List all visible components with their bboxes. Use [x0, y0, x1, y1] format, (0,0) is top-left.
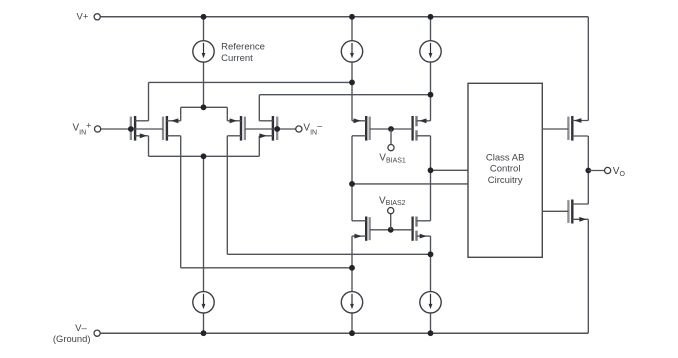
- svg-text:V+: V+: [77, 12, 89, 23]
- svg-text:Class AB: Class AB: [486, 152, 525, 163]
- svg-text:Current: Current: [221, 53, 253, 64]
- svg-text:Control: Control: [490, 164, 521, 175]
- svg-text:(Ground): (Ground): [53, 334, 91, 345]
- svg-text:V–: V–: [75, 323, 87, 334]
- svg-text:Reference: Reference: [221, 42, 265, 53]
- svg-text:Circuitry: Circuitry: [488, 175, 523, 186]
